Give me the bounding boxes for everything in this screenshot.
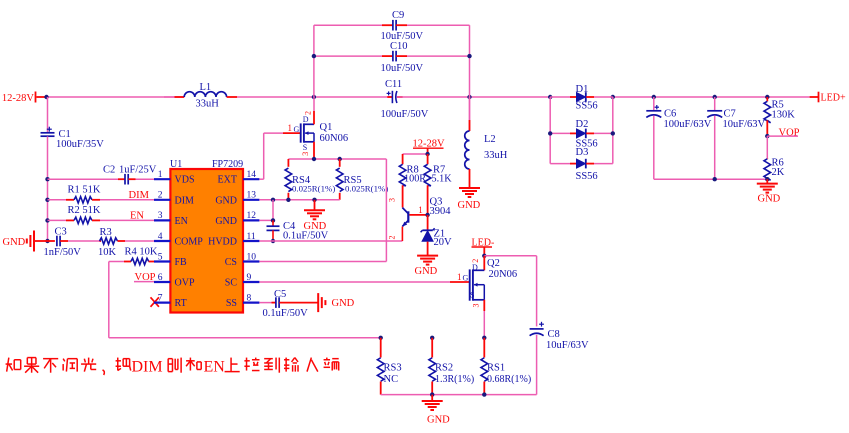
svg-text:EXT: EXT — [218, 175, 237, 186]
svg-text:EN: EN — [204, 359, 226, 376]
svg-text:5: 5 — [158, 252, 163, 262]
svg-text:FB: FB — [175, 257, 188, 268]
svg-text:100uF/63V: 100uF/63V — [664, 119, 712, 130]
svg-text:SS56: SS56 — [576, 171, 598, 182]
svg-text:U1: U1 — [170, 159, 182, 170]
svg-text:EN: EN — [175, 216, 188, 227]
svg-text:14: 14 — [247, 170, 257, 180]
svg-text:C6: C6 — [664, 108, 676, 119]
svg-text:1nF/50V: 1nF/50V — [44, 247, 82, 258]
svg-text:3: 3 — [158, 211, 163, 221]
svg-text:11: 11 — [247, 232, 256, 242]
svg-text:LED+: LED+ — [821, 93, 846, 104]
svg-text:GND: GND — [758, 193, 781, 204]
svg-text:GND: GND — [415, 266, 438, 277]
svg-text:1: 1 — [418, 205, 423, 215]
svg-text:Q2: Q2 — [487, 258, 500, 269]
svg-text:Q1: Q1 — [320, 122, 333, 133]
svg-text:GND: GND — [332, 298, 355, 309]
svg-text:C3: C3 — [55, 227, 67, 238]
svg-text:1: 1 — [457, 272, 462, 282]
svg-text:0.1uF/50V: 0.1uF/50V — [263, 308, 309, 319]
svg-text:RS3: RS3 — [384, 362, 402, 373]
svg-text:S: S — [303, 143, 307, 152]
svg-text:NC: NC — [384, 374, 399, 385]
svg-text:12-28V: 12-28V — [2, 93, 34, 104]
svg-text:DIM: DIM — [175, 195, 195, 206]
svg-text:20N06: 20N06 — [489, 269, 518, 280]
svg-text:100R: 100R — [404, 174, 426, 185]
svg-text:1.3R(1%): 1.3R(1%) — [435, 374, 474, 385]
svg-text:1uF/25V: 1uF/25V — [119, 165, 157, 176]
svg-text:GND: GND — [427, 415, 450, 426]
svg-text:2: 2 — [387, 236, 396, 240]
svg-text:D: D — [303, 115, 309, 124]
svg-text:C10: C10 — [390, 41, 408, 52]
svg-text:12: 12 — [247, 211, 257, 221]
svg-text:33uH: 33uH — [196, 99, 220, 110]
svg-text:D3: D3 — [576, 147, 589, 158]
svg-text:DIM: DIM — [129, 190, 150, 201]
svg-text:HVDD: HVDD — [208, 237, 237, 248]
svg-text:33uH: 33uH — [484, 150, 508, 161]
svg-text:C2: C2 — [103, 165, 115, 176]
svg-text:S: S — [470, 291, 474, 300]
svg-text:GND: GND — [215, 216, 237, 227]
svg-text:SC: SC — [225, 278, 238, 289]
svg-text:R4 10K: R4 10K — [125, 247, 158, 258]
svg-text:1: 1 — [288, 123, 293, 133]
svg-text:G: G — [463, 274, 469, 283]
svg-text:GND: GND — [3, 237, 26, 248]
svg-text:R1 51K: R1 51K — [68, 185, 101, 196]
svg-text:7: 7 — [158, 293, 163, 303]
svg-text:2K: 2K — [772, 167, 785, 178]
svg-text:6: 6 — [158, 273, 163, 283]
svg-text:0.68R(1%): 0.68R(1%) — [487, 374, 531, 385]
svg-text:VDS: VDS — [175, 175, 195, 186]
svg-text:0.025R(1%): 0.025R(1%) — [345, 184, 388, 194]
svg-text:130K: 130K — [772, 109, 796, 120]
svg-text:3904: 3904 — [430, 206, 452, 217]
svg-text:9: 9 — [247, 273, 252, 283]
svg-text:L2: L2 — [484, 134, 496, 145]
svg-text:DIM: DIM — [132, 359, 163, 376]
svg-text:C11: C11 — [385, 79, 402, 90]
svg-text:G: G — [294, 125, 300, 134]
svg-text:10: 10 — [247, 252, 257, 262]
svg-text:C7: C7 — [724, 108, 736, 119]
svg-text:3: 3 — [472, 304, 481, 308]
svg-text:C5: C5 — [274, 289, 286, 300]
svg-text:2: 2 — [471, 259, 480, 263]
svg-text:C9: C9 — [392, 10, 404, 21]
svg-text:OVP: OVP — [175, 278, 195, 289]
svg-text:RT: RT — [175, 298, 187, 309]
svg-text:1: 1 — [158, 170, 163, 180]
svg-text:100uF/50V: 100uF/50V — [381, 109, 429, 120]
svg-text:10K: 10K — [98, 247, 117, 258]
svg-text:0.025R(1%): 0.025R(1%) — [292, 184, 335, 194]
svg-text:CS: CS — [225, 257, 237, 268]
svg-text:10uF/50V: 10uF/50V — [381, 63, 424, 74]
svg-text:VOP: VOP — [779, 128, 800, 139]
svg-text:SS: SS — [226, 298, 237, 309]
svg-text:C8: C8 — [548, 329, 560, 340]
svg-text:2: 2 — [158, 191, 163, 201]
svg-text:2: 2 — [304, 111, 313, 115]
svg-text:SS56: SS56 — [576, 101, 598, 112]
svg-text:0.1uF/50V: 0.1uF/50V — [283, 231, 329, 242]
svg-text:RS1: RS1 — [487, 362, 505, 373]
svg-text:10uF/63V: 10uF/63V — [546, 340, 589, 351]
svg-text:3: 3 — [301, 152, 310, 156]
svg-text:COMP: COMP — [175, 237, 204, 248]
svg-text:FP7209: FP7209 — [212, 159, 243, 170]
svg-text:R3: R3 — [100, 227, 112, 238]
svg-text:3: 3 — [387, 198, 396, 202]
svg-text:D1: D1 — [576, 84, 589, 95]
svg-text:13: 13 — [247, 191, 257, 201]
svg-text:100uF/35V: 100uF/35V — [56, 139, 104, 150]
svg-text:5.1K: 5.1K — [432, 174, 453, 185]
svg-text:GND: GND — [458, 200, 481, 211]
svg-text:20V: 20V — [434, 237, 453, 248]
svg-text:GND: GND — [215, 195, 237, 206]
svg-text:L1: L1 — [200, 82, 212, 93]
svg-text:D: D — [472, 263, 478, 272]
svg-text:4: 4 — [158, 232, 163, 242]
svg-text:60N06: 60N06 — [320, 133, 349, 144]
svg-text:8: 8 — [247, 293, 252, 303]
svg-text:RS2: RS2 — [435, 362, 453, 373]
svg-text:EN: EN — [130, 211, 144, 222]
svg-text:D2: D2 — [576, 119, 589, 130]
svg-text:R2 51K: R2 51K — [68, 205, 101, 216]
svg-text:10uF/63V: 10uF/63V — [723, 119, 766, 130]
